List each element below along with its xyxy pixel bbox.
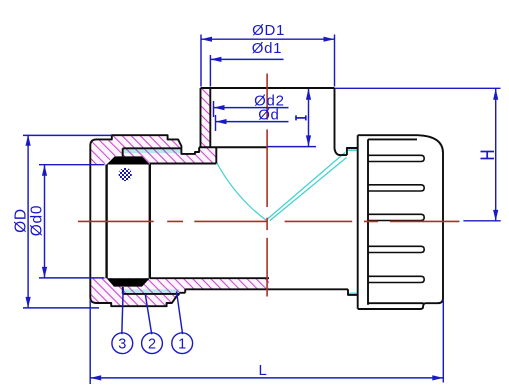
svg-text:Ød0: Ød0 [29,205,46,236]
svg-text:1: 1 [178,336,186,352]
svg-text:ØD1: ØD1 [252,22,285,39]
svg-text:3: 3 [118,336,126,352]
svg-text:L: L [258,362,267,379]
svg-text:2: 2 [148,336,156,352]
svg-text:Ød: Ød [258,107,279,124]
svg-text:Ød1: Ød1 [252,40,282,57]
svg-text:ØD: ØD [13,208,30,233]
